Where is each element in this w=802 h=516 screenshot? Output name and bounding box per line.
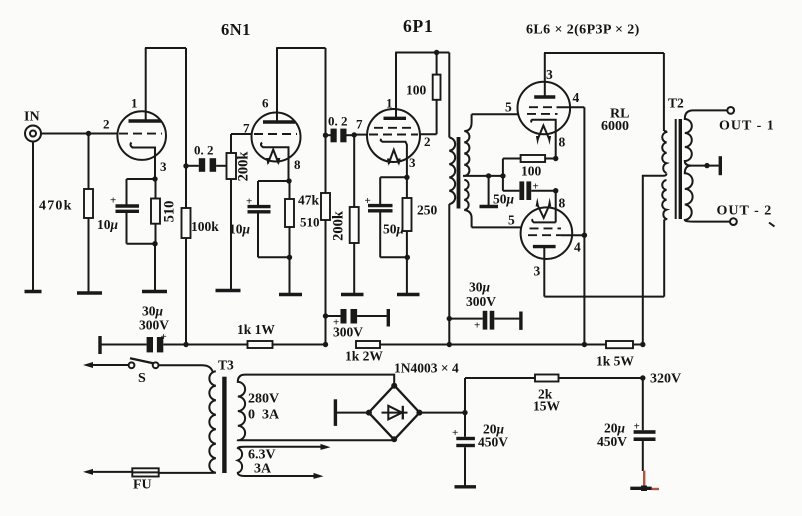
wire OUT-1 [693,109,727,111]
svg-text:450V: 450V [478,435,508,450]
resistor 47k [321,193,330,345]
node bridge plus [462,410,467,415]
triode V1b (6N1 second half) [252,113,301,182]
capacitor 50u (bias) [503,181,556,200]
svg-text:6: 6 [262,96,269,111]
wire V1a plate to rail [145,48,147,120]
node rail/47k line [323,342,328,347]
wire V4 screen to bus [561,234,584,236]
triode V1a (6N1 first half) [117,111,166,179]
svg-text:4: 4 [574,240,581,255]
wire V1b grid [231,133,252,135]
svg-text:T3: T3 [218,358,234,373]
svg-text:+: + [474,320,480,332]
svg-text:450V: 450V [597,434,627,449]
node V1b cathode [286,178,291,183]
svg-text:1k 1W: 1k 1W [237,322,275,337]
transformer T2 core [676,119,682,219]
svg-text:280V: 280V [248,392,279,407]
svg-text:5: 5 [508,213,515,228]
wire plate rail A [145,47,186,49]
svg-text:15W: 15W [533,399,561,414]
resistor 100 (screen) [420,53,441,135]
wire up to T2 primary bottom [663,220,665,297]
wire jack down [32,142,34,292]
ground (470k) [77,291,102,294]
resistor 2k 15W [465,375,643,382]
transformer T1 primary winding [449,138,455,205]
svg-text:2: 2 [424,134,431,149]
wire rail D down to T2 primary [663,53,665,131]
svg-text:+: + [161,331,167,343]
wire T3 primary bottom to fuse [159,472,216,474]
wire 280V bottom to bridge [245,439,394,441]
svg-text:FU: FU [133,478,152,493]
wire fuse arrow [83,469,132,475]
svg-text:4: 4 [573,90,580,105]
heater V3 [536,126,551,146]
wire V4 cathode joins bus [555,191,557,223]
wire bridge plus [420,412,465,414]
capacitor 30u 300V (mid) [326,309,387,324]
capacitor 30u 300V (rail left) [100,337,186,352]
resistor 470k [84,134,93,294]
svg-text:30μ: 30μ [469,280,491,295]
svg-text:8: 8 [294,157,301,172]
wire to ground [154,244,156,292]
ground (200k) [216,289,241,292]
ground (V2 cathode) [397,293,420,296]
ground (200k 6P1) [341,293,364,296]
svg-text:100: 100 [406,83,427,98]
svg-text:0. 2: 0. 2 [328,114,348,129]
terminal bar (30u right) [519,312,522,330]
wire V2 grid [354,134,367,136]
svg-text:7: 7 [356,117,363,132]
wire plus up to 2k [464,378,466,413]
terminal bar rail left end [98,336,101,354]
svg-text:200k: 200k [331,210,347,241]
node cathode network bottom [152,241,157,246]
svg-text:50μ: 50μ [383,222,405,237]
node coupling cap 2 [323,133,328,138]
svg-text:1k 5W: 1k 5W [596,354,634,369]
node secondary mid [704,163,709,168]
svg-text:+: + [246,196,252,208]
wire screen bus down [583,107,585,344]
node coupling cap 1 [183,163,188,168]
wire heater lead 1 arrow [245,444,331,450]
transformer T1 secondary top winding [464,114,471,176]
svg-text:1: 1 [386,96,393,111]
wire plate rail D [544,52,664,54]
transformer T2 primary top winding [662,131,666,173]
svg-text:10μ: 10μ [229,222,251,237]
wire V3 plate to rail [544,53,546,97]
svg-text:50μ: 50μ [493,192,515,207]
node V2 cathode [404,175,409,180]
transformer T1 core [457,137,461,209]
wire input to grid [41,133,118,135]
svg-text:8: 8 [559,196,566,211]
tetrode V4 6L6 lower [521,207,573,259]
svg-text:0. 2: 0. 2 [194,143,214,158]
capacitor 20u 450V (left) [456,413,475,487]
svg-text:100k: 100k [191,219,219,234]
capacitor 20u 450V (right) [634,378,656,471]
node screens junction [582,233,587,238]
capacitor 30u 300V (right) [449,311,519,330]
wire switch arrow [83,362,129,368]
capacitor 0.2 coupling 1 [186,158,227,172]
wire grid upper 6L6 [472,113,518,115]
svg-text:1k 2W: 1k 2W [345,349,383,364]
capacitor 10u (V1b cathode) [248,181,290,257]
heater V4 [536,198,552,218]
terminal bar (mid cap) [387,309,390,327]
svg-text:47k: 47k [298,193,320,208]
svg-text:S: S [138,371,146,386]
transformer T3 secondary 6.3V [238,447,245,476]
terminal bar bridge minus [334,399,337,426]
svg-text:320V: 320V [650,372,681,387]
resistor 250 (V2 cathode) [403,177,412,294]
wire T2 center tap [643,174,667,345]
node center tap ground branch [486,173,491,178]
wire to ground (bias) [488,176,490,207]
fuse FU [132,468,158,476]
wire switch to T3 [159,365,213,371]
wire V4 plate down [543,247,545,297]
svg-text:250: 250 [417,203,438,218]
resistor 200k (V1b grid) [227,134,237,291]
resistor 510 (V1a cathode) [151,179,160,244]
node 300V cap tap [323,313,328,318]
node rail/T1 primary [447,342,452,347]
node rail/100k [183,342,188,347]
svg-text:T2: T2 [668,96,684,111]
transformer T3 secondary 280V [238,375,245,441]
svg-text:3: 3 [546,67,553,82]
svg-text:3: 3 [160,159,167,174]
svg-text:0 3A: 0 3A [248,408,280,423]
node rail/320V line [640,342,645,347]
svg-text:6N1: 6N1 [221,20,251,39]
transformer T2 secondary bottom winding [685,166,693,222]
wire T1 primary bottom down [448,204,450,345]
wire heater lead 2 arrow [245,473,324,479]
pentode V2 6P1 [367,109,420,177]
ground (V1a cathode) [142,290,167,293]
svg-text:8: 8 [559,135,566,150]
svg-text:6.3V: 6.3V [248,448,276,463]
capacitor 0.2 coupling 2 [326,129,355,143]
resistor 100 (bias) [503,155,556,162]
svg-text:3: 3 [534,264,541,279]
resistor 200k (6P1 grid) [350,135,359,295]
node RC bottom (V2) [405,255,410,260]
svg-text:300V: 300V [139,318,169,333]
switch S [129,358,159,368]
svg-text:10μ: 10μ [97,217,119,232]
node cathode/50u [553,188,558,193]
wire V3 screen to screen bus [557,106,585,108]
wire grid lower 6L6 [472,226,522,228]
svg-text:6000: 6000 [601,119,629,134]
resistor 1k 5W [606,341,643,348]
transformer T1 secondary bottom winding [464,180,471,228]
wire bias RC left leg [502,159,504,191]
input jack IN [25,126,41,142]
ground (input) [25,290,42,293]
svg-text:6P1: 6P1 [403,16,434,36]
node rail/screen bus [582,342,587,347]
svg-text:3A: 3A [254,462,272,477]
svg-text:IN: IN [24,110,40,125]
wire T1 center tap [463,175,503,177]
svg-text:510: 510 [162,201,178,223]
svg-text:1: 1 [131,96,138,111]
svg-text:470k: 470k [39,199,73,214]
node 320V [640,375,645,380]
svg-text:3: 3 [409,155,416,170]
svg-text:+: + [533,181,539,193]
resistor 510 (V1b cathode) [285,181,294,295]
capacitor 10u (V1a cathode) [116,179,156,244]
svg-text:5: 5 [505,100,512,115]
wire rail C down to T1 primary [448,53,450,138]
wire V1b plate to rail [276,48,278,121]
transformer T2 secondary top winding [685,110,693,165]
wire bridge minus stub [337,412,369,414]
resistor 100k [182,208,191,345]
resistor 1k 1W [186,341,326,348]
svg-text:100: 100 [521,164,542,179]
wire rail A down [185,48,187,208]
transformer T3 core [222,377,226,473]
svg-text:+: + [110,195,116,207]
transformer T3 primary winding [209,371,215,473]
wire secondary mid tap [691,165,719,167]
heater V2 [387,150,401,166]
ground (20u right, red) [630,471,659,491]
svg-text:OUT - 2: OUT - 2 [717,204,773,219]
svg-text:+: + [365,195,371,207]
svg-text:6L6 × 2(6P3P × 2): 6L6 × 2(6P3P × 2) [526,23,640,38]
node screen resistor top [434,50,439,55]
node cathode V1a [152,176,157,181]
node bias RC left [500,173,505,178]
wire plate rail B [276,47,325,49]
node 30u cap tap (T1) [447,316,452,321]
node input/470k junction [86,131,91,136]
speck mark [769,223,775,227]
svg-text:510: 510 [300,215,320,230]
tetrode V3 6L6 upper [518,82,571,159]
wire 280V top to bridge [245,375,394,386]
svg-text:1N4003 × 4: 1N4003 × 4 [394,361,459,376]
node RC bottom (V1b) [287,255,292,260]
wire rail B down [325,48,327,193]
terminal bar secondary mid [719,156,722,175]
svg-text:300V: 300V [466,294,496,309]
capacitor 50u (V2 cathode) [368,177,407,257]
ground (bias network) [480,205,499,208]
bridge rectifier 1N4003x4 [366,383,423,442]
svg-text:2: 2 [103,117,110,132]
svg-text:30μ: 30μ [142,304,164,319]
heater V1b [266,150,280,166]
svg-text:OUT - 1: OUT - 1 [719,119,775,134]
terminal OUT-2 [730,218,737,225]
resistor 1k 2W [356,341,449,348]
terminal OUT-1 [727,107,734,114]
svg-text:+: + [634,421,640,433]
wire OUT-2 [693,221,730,223]
svg-text:+: + [452,427,458,439]
ground (V1b cathode) [279,293,302,296]
transformer T2 primary bottom winding [662,180,666,220]
wire plate rail C [395,52,449,54]
svg-text:200k: 200k [236,151,252,182]
node cathode/100 [553,156,558,161]
ground (20u left) [455,485,477,488]
svg-text:300V: 300V [333,325,363,340]
wire V4 plate across [544,296,664,298]
node 6P1 grid [352,132,357,137]
wire rail mid section [449,344,606,346]
wire V2 plate to rail [395,53,397,118]
